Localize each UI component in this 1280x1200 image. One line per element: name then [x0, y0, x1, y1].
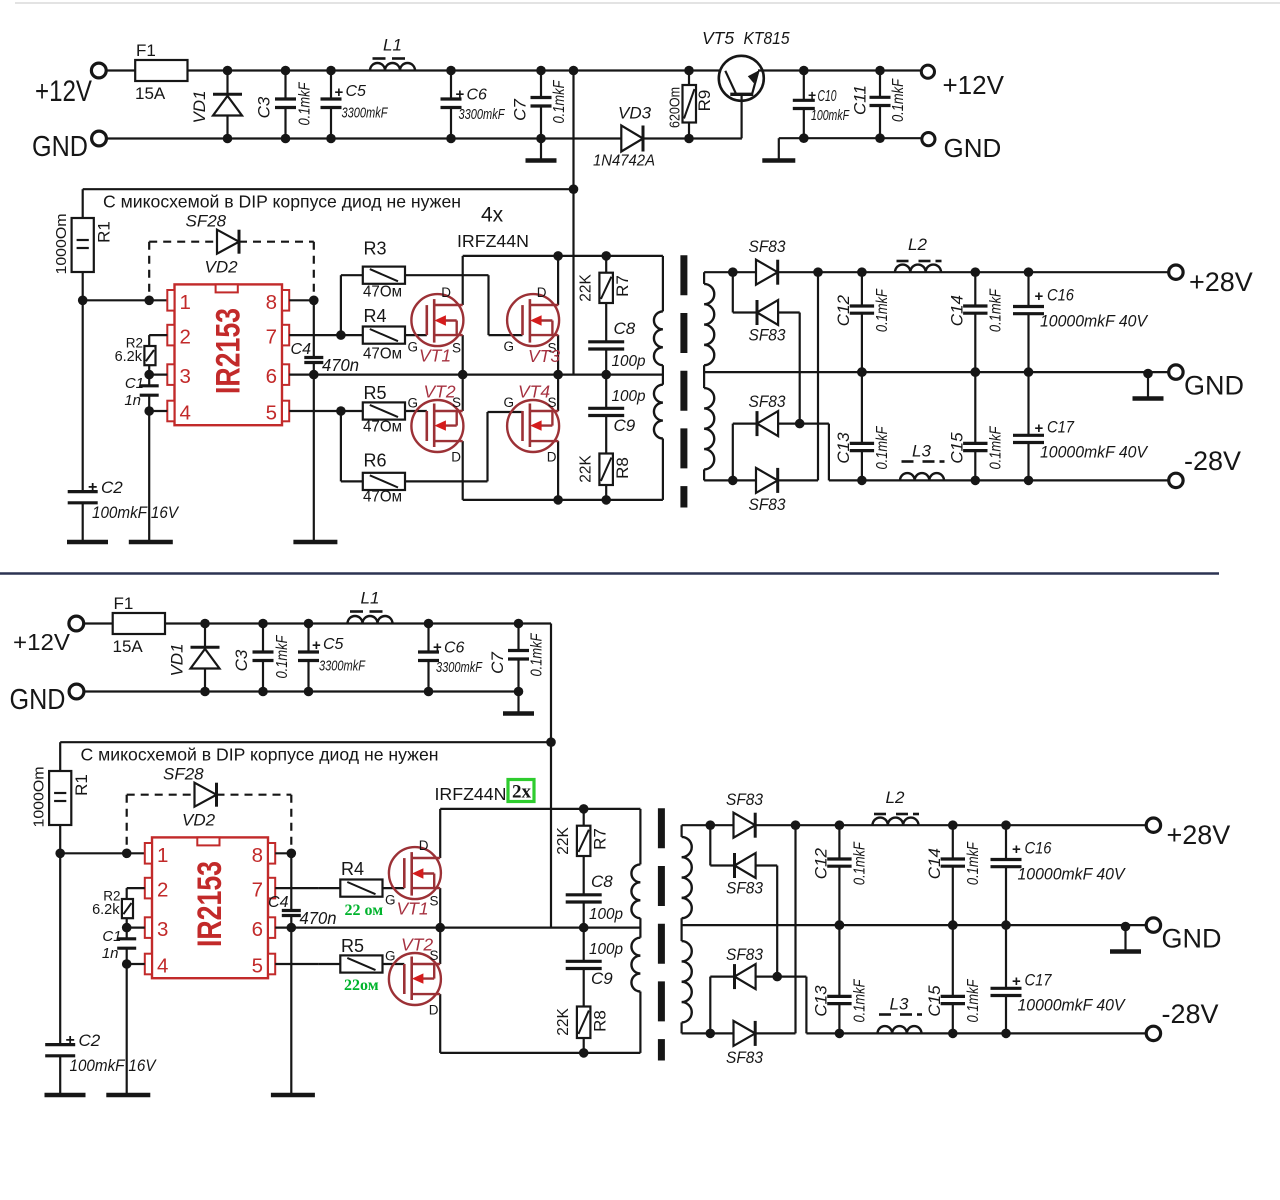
- wire D3 anode lead: [778, 423, 829, 425]
- ground symbol under C7: [526, 158, 557, 163]
- wire R5 to VT2 gate: [405, 410, 427, 412]
- inductor L2 core dashes: [897, 260, 909, 263]
- transformer secondary top lead: [703, 272, 705, 284]
- svg-text:SF28: SF28: [186, 212, 227, 231]
- svg-text:D: D: [547, 450, 557, 465]
- svg-text:+12V: +12V: [943, 70, 1005, 100]
- wire base rail after VD3: [643, 137, 742, 139]
- inductor L3: [878, 1026, 922, 1033]
- transformer secondary mid stub: [703, 365, 705, 388]
- wire bus to R7: [583, 809, 585, 826]
- wire pin1 feed: [83, 299, 168, 301]
- wire C4 to ground: [313, 363, 315, 543]
- svg-text:5: 5: [266, 402, 277, 425]
- svg-text:GND: GND: [1162, 924, 1222, 954]
- wire D2 left lead: [733, 311, 757, 313]
- capacitor C9: [588, 407, 624, 410]
- junction C15 bottom: [948, 1029, 958, 1039]
- svg-text:1N4742A: 1N4742A: [593, 153, 655, 170]
- svg-text:100mkF: 100mkF: [811, 107, 850, 124]
- transistor VT3: [507, 294, 559, 346]
- wire C15 bottom lead: [952, 1004, 954, 1034]
- capacitor C4: [304, 356, 323, 359]
- svg-text:SF83: SF83: [749, 237, 786, 256]
- svg-text:10000mkF 40V: 10000mkF 40V: [1040, 313, 1149, 331]
- inductor L1 core dash 1: [350, 610, 363, 613]
- transistor VT1: [411, 294, 463, 346]
- wire VD1 bottom lead: [226, 116, 228, 139]
- junction pin8: [309, 296, 319, 306]
- capacitor C12: [850, 304, 874, 307]
- transistor VT1: [389, 847, 441, 899]
- dashed box top-left: [127, 794, 195, 796]
- inductor L3 core dashes: [902, 460, 914, 463]
- svg-text:R1: R1: [95, 221, 114, 243]
- terminal +12V input: [69, 616, 84, 631]
- junction R7 at top bus: [601, 251, 611, 261]
- capacitor C14: [941, 857, 965, 860]
- wire R3 branch vertical: [340, 275, 342, 335]
- wire top +12V rail: [84, 622, 552, 624]
- svg-text:+28V: +28V: [1189, 267, 1253, 297]
- wire C16 bottom lead: [1005, 867, 1007, 925]
- junction C6 top: [446, 66, 456, 76]
- wire pin5 feed: [289, 410, 341, 412]
- svg-text:С микосхемой в DIP корпусе дио: С микосхемой в DIP корпусе диод не нужен: [103, 192, 461, 212]
- wire C14 bottom lead: [974, 313, 976, 372]
- svg-text:0.1mkF: 0.1mkF: [890, 78, 907, 122]
- wire pin5 feed: [275, 963, 318, 965]
- svg-text:F1: F1: [114, 594, 134, 613]
- diode VD3: [621, 126, 643, 152]
- transformer secondary upper winding: [704, 284, 714, 365]
- wire C8 to mid rail: [583, 902, 585, 928]
- diode SF83 D3: [735, 964, 756, 989]
- wire D2 branch vertical: [709, 825, 711, 865]
- svg-text:3: 3: [180, 365, 191, 388]
- junction pin3: [144, 370, 154, 380]
- terminal -28V: [1169, 473, 1183, 487]
- wire R5 left lead: [318, 963, 340, 965]
- svg-text:15A: 15A: [113, 637, 144, 656]
- svg-text:L2: L2: [908, 235, 927, 254]
- svg-text:0.1mkF: 0.1mkF: [874, 288, 891, 332]
- svg-text:C10: C10: [818, 88, 837, 105]
- svg-text:C12: C12: [834, 294, 853, 326]
- junction C16 bottom: [1024, 367, 1034, 377]
- capacitor C7: [508, 649, 529, 652]
- wire C13 bottom lead: [838, 1004, 840, 1034]
- transformer primary mid stub: [662, 365, 664, 385]
- wire C15 top lead: [952, 925, 954, 996]
- IR2153 right pin 6 stub: [268, 917, 275, 938]
- wire FET bottom bus: [463, 499, 663, 501]
- wire FET top bus: [440, 808, 640, 810]
- junction +12V drop at rail: [569, 66, 579, 76]
- svg-text:VT3: VT3: [528, 346, 560, 366]
- IR2153 right pin 8 stub: [268, 843, 275, 864]
- svg-text:47Ом: 47Ом: [363, 346, 402, 363]
- svg-text:C17: C17: [1025, 972, 1053, 990]
- svg-text:D: D: [429, 1003, 439, 1018]
- junction C7 at GND rail: [514, 687, 524, 697]
- svg-text:R8: R8: [613, 457, 632, 479]
- svg-text:8: 8: [252, 844, 263, 867]
- svg-text:100p: 100p: [612, 353, 646, 370]
- junction R9 bottom: [684, 134, 694, 144]
- capacitor C13: [827, 995, 851, 998]
- svg-text:+: +: [456, 86, 465, 103]
- svg-text:G: G: [504, 339, 515, 354]
- junction VT3 drain at top bus: [553, 251, 563, 261]
- junction R8 at bottom bus: [601, 495, 611, 505]
- wire DIP section top: [60, 741, 551, 743]
- transformer primary upper winding: [654, 311, 663, 365]
- wire pin8 to C4: [313, 300, 315, 357]
- IR2153 right pin 6 stub: [282, 364, 289, 385]
- wire +28 rail: [704, 271, 1169, 273]
- junction C3 bottom: [258, 687, 268, 697]
- svg-text:R5: R5: [364, 383, 387, 403]
- junction dashed-box left at pin1 wire: [144, 296, 154, 306]
- junction C13 bottom: [835, 1029, 845, 1039]
- wire C6 top lead: [427, 624, 429, 653]
- junction output ground stub: [1143, 369, 1153, 379]
- wire VT2 drain vertical: [462, 441, 464, 500]
- junction D3 at bottom rail: [728, 476, 738, 486]
- junction C15 top: [971, 367, 981, 377]
- inductor L3: [900, 473, 944, 480]
- fuse F1: [113, 613, 165, 634]
- junction C15 bottom: [971, 476, 981, 486]
- IR2153 right pin 8 stub: [282, 290, 289, 311]
- svg-text:IR2153: IR2153: [210, 308, 248, 394]
- svg-text:C12: C12: [811, 847, 830, 879]
- junction C7 top: [536, 66, 546, 76]
- wire C5 bottom lead: [330, 108, 332, 139]
- wire C17 bottom lead: [1027, 443, 1029, 481]
- transformer primary lower winding: [631, 938, 640, 992]
- svg-text:C6: C6: [467, 87, 488, 104]
- terminal -28V: [1146, 1026, 1160, 1040]
- resistor R9: [683, 85, 697, 123]
- transformer primary bottom lead: [662, 439, 664, 500]
- junction C6 top: [424, 619, 434, 629]
- dashed box left side: [148, 242, 150, 301]
- junction C4 at pin6 rail: [309, 370, 319, 380]
- junction C5 top: [304, 619, 314, 629]
- wire C12 bottom lead: [838, 866, 840, 925]
- svg-text:3300mkF: 3300mkF: [319, 658, 366, 675]
- wire D2 anode lead: [778, 311, 800, 313]
- wire pin6 mid rail: [275, 926, 640, 928]
- svg-text:3300mkF: 3300mkF: [459, 106, 506, 123]
- wire C7 bottom lead: [517, 659, 519, 712]
- transformer secondary mid stub: [680, 918, 682, 941]
- svg-text:1n: 1n: [124, 392, 141, 409]
- terminal output GND: [1169, 365, 1183, 379]
- op-amp U1 IR2153 body: [152, 837, 268, 978]
- svg-text:C8: C8: [591, 872, 613, 891]
- junction C3 top: [281, 66, 291, 76]
- dashed box top-left: [149, 241, 217, 243]
- wire C5 top lead: [330, 71, 332, 100]
- transformer secondary top lead: [680, 825, 682, 837]
- svg-text:C15: C15: [925, 985, 944, 1017]
- junction VT1/VT2 source at mid rail: [435, 923, 445, 933]
- inductor L1 core dash 1: [373, 57, 386, 60]
- svg-text:R7: R7: [613, 275, 632, 297]
- svg-text:1000Om: 1000Om: [31, 767, 48, 828]
- wire C12 bottom lead: [861, 313, 863, 372]
- wire D3 to bottom rail vertical: [709, 977, 711, 1034]
- diode SF83 D2: [735, 853, 756, 878]
- terminal GND input: [69, 684, 84, 699]
- svg-text:C9: C9: [614, 416, 636, 435]
- dashed box right side: [290, 795, 292, 854]
- diode SF83 D2: [757, 300, 778, 325]
- svg-text:10000mkF 40V: 10000mkF 40V: [1018, 866, 1127, 884]
- junction +12V drop at DIP wire: [569, 184, 579, 194]
- wire C7 top lead: [540, 71, 542, 98]
- svg-text:0.1mkF: 0.1mkF: [851, 841, 868, 885]
- svg-text:SF83: SF83: [749, 495, 786, 514]
- svg-text:-28V: -28V: [1184, 446, 1241, 476]
- ground symbol under C2: [67, 540, 108, 545]
- IR2153 left pin 3 stub: [167, 364, 174, 385]
- svg-text:0.1mkF: 0.1mkF: [297, 81, 314, 125]
- svg-text:D: D: [537, 285, 547, 300]
- junction C5 bottom: [326, 134, 336, 144]
- junction C6 bottom: [446, 134, 456, 144]
- junction R3/R4: [336, 330, 346, 340]
- junction D3 at bottom rail: [706, 1029, 716, 1039]
- svg-text:C7: C7: [488, 652, 507, 674]
- resistor R7: [599, 273, 613, 303]
- dashed box left side: [126, 795, 128, 854]
- wire +28 rail: [682, 824, 1147, 826]
- svg-text:470n: 470n: [300, 908, 337, 928]
- IR2153 left pin 2 stub: [145, 878, 152, 899]
- ground symbol under C2: [45, 1093, 86, 1098]
- svg-text:6: 6: [266, 365, 277, 388]
- wire VT3 source vertical: [557, 335, 559, 375]
- capacitor C8: [566, 893, 602, 896]
- junction C17 bottom: [1024, 476, 1034, 486]
- wire pin7 feed: [275, 887, 318, 889]
- svg-text:100p: 100p: [612, 388, 646, 405]
- junction C10 top: [799, 66, 809, 76]
- wire secondary bottom rail: [704, 479, 818, 481]
- svg-text:SF83: SF83: [749, 392, 786, 411]
- wire C9 to R8: [605, 416, 607, 454]
- wire C15 bottom lead: [974, 451, 976, 481]
- wire secondary bottom rail: [682, 1032, 796, 1034]
- wire output GND rail: [682, 924, 1147, 926]
- junction C3 top: [258, 619, 268, 629]
- wire C13 bottom lead: [861, 451, 863, 481]
- svg-text:4: 4: [180, 402, 191, 425]
- junction D4 at +28 rail: [791, 820, 801, 830]
- transformer primary upper winding: [631, 864, 640, 918]
- resistor R1: [72, 218, 94, 272]
- svg-text:+: +: [1035, 420, 1044, 437]
- wire C3 bottom lead: [284, 108, 286, 139]
- IR2153 right pin 7 stub: [268, 878, 275, 899]
- svg-text:R1: R1: [72, 774, 91, 796]
- capacitor C8: [588, 340, 624, 343]
- wire pin2 feed: [127, 887, 145, 889]
- svg-text:0.1mkF: 0.1mkF: [965, 841, 982, 885]
- wire D4 cathode to +28 vertical: [794, 825, 796, 1033]
- svg-text:0.1mkF: 0.1mkF: [851, 978, 868, 1022]
- junction +12V drop at DIP wire: [546, 737, 556, 747]
- wire R4 left lead: [318, 887, 340, 889]
- junction VD1 top: [200, 619, 210, 629]
- wire C3 bottom lead: [262, 661, 264, 692]
- junction R7 at top bus: [579, 804, 589, 814]
- svg-text:SF28: SF28: [163, 765, 204, 784]
- wire R4 left lead: [341, 334, 363, 336]
- wire output GND rail: [704, 371, 1169, 373]
- svg-text:VT2: VT2: [401, 935, 433, 955]
- resistor R6: [363, 473, 405, 490]
- svg-text:C1: C1: [102, 928, 121, 945]
- terminal GND input: [92, 131, 107, 146]
- svg-text:100mkF 16V: 100mkF 16V: [92, 503, 179, 522]
- wire D2 to D3 vertical: [799, 313, 801, 424]
- resistor R1: [49, 771, 71, 825]
- IR2153 right pin 5 stub: [268, 954, 275, 975]
- svg-text:10000mkF 40V: 10000mkF 40V: [1040, 444, 1149, 462]
- svg-text:C14: C14: [947, 295, 966, 326]
- wire -28 rail: [806, 1032, 1147, 1034]
- junction C12 top: [835, 820, 845, 830]
- wire R4 to VT1 gate: [383, 887, 405, 889]
- resistor R4: [340, 880, 382, 897]
- svg-text:C15: C15: [947, 432, 966, 464]
- inductor L1 core dash 2: [370, 610, 383, 613]
- capacitor C15: [963, 442, 987, 445]
- junction R5/R6: [336, 406, 346, 416]
- svg-text:1n: 1n: [102, 945, 119, 962]
- svg-text:C6: C6: [444, 640, 465, 657]
- junction C5 bottom: [304, 687, 314, 697]
- transformer primary lower winding: [654, 385, 663, 439]
- svg-text:2: 2: [180, 326, 191, 349]
- top border light line: [15, 2, 1280, 4]
- svg-text:+: +: [335, 84, 344, 101]
- wire FET bottom bus: [440, 1052, 640, 1054]
- svg-text:R8: R8: [591, 1010, 610, 1032]
- svg-text:L1: L1: [383, 36, 402, 55]
- wire R2 to pin3: [126, 918, 128, 939]
- wire R4 to VT1 gate: [405, 334, 427, 336]
- svg-text:+12V: +12V: [13, 629, 71, 655]
- terminal +28V: [1146, 818, 1160, 832]
- junction C10 bottom: [799, 133, 809, 143]
- svg-text:0.1mkF: 0.1mkF: [529, 632, 546, 676]
- wire VT1 source vertical: [439, 888, 441, 928]
- inductor L2: [873, 818, 919, 826]
- capacitor C13: [850, 442, 874, 445]
- capacitor C6: [418, 650, 439, 653]
- wire C3 top lead: [262, 624, 264, 653]
- op-amp U1 IR2153 body: [175, 284, 283, 425]
- terminal output GND: [1146, 918, 1160, 932]
- svg-text:+: +: [808, 87, 816, 103]
- svg-text:0.1mkF: 0.1mkF: [551, 79, 568, 123]
- wire R1 top lead: [59, 742, 61, 771]
- svg-text:2x: 2x: [512, 782, 532, 803]
- junction VT3/VT4 source at mid rail: [553, 370, 563, 380]
- wire D2 to D3 vertical: [776, 866, 778, 977]
- diode SF83 D1: [734, 813, 756, 838]
- capacitor C10: [793, 99, 815, 102]
- wire C17 top lead: [1027, 372, 1029, 435]
- junction pin4: [122, 959, 132, 969]
- junction VD1 bottom: [223, 134, 233, 144]
- svg-text:S: S: [452, 341, 461, 356]
- wire D4 cathode to +28 vertical: [817, 272, 819, 480]
- svg-text:+28V: +28V: [1167, 820, 1231, 850]
- inductor L2: [895, 265, 941, 273]
- wire pin3 feed: [127, 926, 145, 928]
- wire pin6 mid rail: [289, 374, 663, 376]
- svg-text:3300mkF: 3300mkF: [342, 105, 389, 122]
- wire R5 to VT2 gate: [383, 963, 405, 965]
- svg-text:0.1mkF: 0.1mkF: [874, 425, 891, 469]
- wire C1 to pin4: [148, 395, 150, 542]
- wire pin8 to C4: [290, 853, 292, 910]
- junction C6 bottom: [424, 687, 434, 697]
- wire R3 to VT3 gate: [405, 274, 489, 276]
- junction D4 at +28 rail: [813, 267, 823, 277]
- diode VD1: [191, 646, 220, 649]
- svg-text:G: G: [385, 949, 396, 964]
- transformer secondary lower winding: [704, 388, 714, 469]
- wire pin4 feed: [149, 410, 167, 412]
- junction C11 bottom: [875, 133, 885, 143]
- transformer secondary upper winding: [682, 837, 692, 918]
- wire GND rail: [106, 137, 621, 139]
- svg-text:C14: C14: [925, 848, 944, 879]
- svg-text:C17: C17: [1047, 419, 1075, 437]
- svg-text:G: G: [408, 396, 419, 411]
- wire minus28 drop: [805, 977, 807, 1034]
- junction dashed-box left at pin1 wire: [122, 849, 132, 859]
- junction C13 bottom: [857, 476, 867, 486]
- wire C2 bottom lead: [82, 503, 84, 542]
- wire R6 left lead: [341, 480, 363, 482]
- svg-text:IRFZ44N: IRFZ44N: [457, 231, 529, 251]
- capacitor C5: [321, 97, 342, 100]
- svg-text:+: +: [1012, 973, 1021, 990]
- IR2153 right pin 7 stub: [282, 325, 289, 346]
- svg-text:R3: R3: [364, 239, 387, 259]
- svg-text:1000Om: 1000Om: [53, 214, 70, 275]
- svg-text:GND: GND: [32, 131, 88, 163]
- IR2153 left pin 1 stub: [145, 843, 152, 864]
- terminal +12V output: [921, 65, 934, 78]
- svg-text:D: D: [441, 285, 451, 300]
- junction pin8: [287, 849, 297, 859]
- wire D2 branch vertical: [732, 272, 734, 312]
- svg-text:1: 1: [157, 844, 168, 867]
- transistor VT5: [719, 56, 764, 101]
- svg-text:22 ом: 22 ом: [345, 902, 384, 919]
- svg-text:+: +: [88, 479, 97, 496]
